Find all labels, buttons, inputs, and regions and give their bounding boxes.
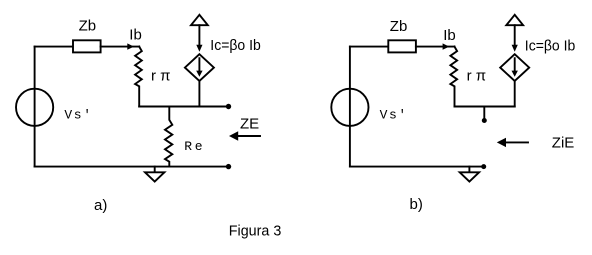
resistor r pi zigzag (circuit a) bbox=[135, 47, 142, 107]
svg-text:Re: Re bbox=[184, 139, 205, 154]
wire: current source bottom lead (circuit b) bbox=[514, 81, 516, 107]
resistor r pi zigzag (circuit b) bbox=[450, 47, 457, 107]
voltage source Vs' (circuit a) bbox=[16, 89, 53, 126]
wire: emitter stub below mid wire (circuit b) bbox=[483, 107, 485, 118]
svg-text:a): a) bbox=[94, 197, 107, 214]
Ib current arrowhead (circuit b) bbox=[443, 43, 450, 49]
wire: left vertical branch through source (circuit b) bbox=[349, 47, 351, 167]
wire: collector stem into current source (circuit b) bbox=[514, 25, 516, 45]
dependent current source Ic diamond (circuit a) bbox=[185, 54, 214, 81]
wire: bottom return wire (circuit b) bbox=[350, 166, 484, 168]
svg-text:r π: r π bbox=[151, 68, 171, 85]
dependent current source Ic diamond (circuit b) bbox=[500, 54, 529, 81]
node dot: bottom right end (circuit a) bbox=[226, 164, 231, 169]
svg-text:Figura 3: Figura 3 bbox=[229, 223, 281, 240]
wire: bottom return wire (circuit a) bbox=[35, 166, 229, 168]
svg-text:Ib: Ib bbox=[129, 27, 142, 44]
arrowhead into current source top (circuit b) bbox=[512, 45, 518, 52]
svg-text:Vs': Vs' bbox=[64, 108, 92, 123]
voltage source Vs' (circuit b) bbox=[331, 89, 368, 126]
svg-text:r π: r π bbox=[467, 68, 487, 85]
resistor Re zigzag (circuit a) bbox=[165, 107, 172, 167]
wire: mid horizontal node wire (circuit b) bbox=[455, 106, 515, 108]
ground symbol (circuit a) bbox=[154, 167, 156, 173]
wire: collector stem into current source (circuit a) bbox=[198, 25, 200, 45]
svg-text:Vs': Vs' bbox=[380, 108, 408, 123]
svg-text:ZE: ZE bbox=[240, 116, 259, 133]
node dot: emitter stub (circuit b) bbox=[482, 118, 487, 123]
svg-text:ZiE: ZiE bbox=[552, 134, 575, 151]
collector up-arrow symbol (circuit a) bbox=[191, 15, 208, 25]
svg-text:Ic=βo Ib: Ic=βo Ib bbox=[525, 38, 576, 55]
arrowhead into current source top (circuit a) bbox=[196, 45, 202, 52]
svg-text:b): b) bbox=[410, 196, 423, 213]
ground symbol (circuit b) bbox=[468, 167, 470, 173]
wire: Zb to r-pi with Ib arrow (circuit b) bbox=[416, 46, 455, 48]
current source inner arrow (circuit a) bbox=[198, 58, 200, 71]
wire: Zb to r-pi with Ib arrow (circuit a) bbox=[101, 46, 140, 48]
Ib current arrowhead (circuit a) bbox=[127, 43, 134, 49]
current source inner arrow (circuit b) bbox=[514, 58, 516, 71]
svg-text:Ic=βo Ib: Ic=βo Ib bbox=[210, 37, 260, 54]
resistor Zb (circuit a) bbox=[73, 40, 101, 52]
wire: left vertical branch through source (circuit a) bbox=[34, 47, 36, 167]
svg-text:Zb: Zb bbox=[390, 18, 408, 35]
wire: top from source to Zb (circuit b) bbox=[350, 46, 388, 48]
collector up-arrow symbol (circuit b) bbox=[506, 15, 523, 25]
wire: top from source to Zb (circuit a) bbox=[35, 46, 73, 48]
svg-text:Zb: Zb bbox=[79, 18, 97, 35]
wire: current source bottom lead (circuit a) bbox=[198, 81, 200, 107]
node dot: bottom right end (circuit b) bbox=[481, 164, 486, 169]
ZE impedance arrow (circuit a) bbox=[238, 135, 261, 137]
resistor Zb (circuit b) bbox=[388, 40, 416, 52]
node dot: emitter node right end of mid wire (circuit a) bbox=[226, 104, 231, 109]
wire: mid horizontal node wire (circuit a) bbox=[139, 106, 228, 108]
svg-text:Ib: Ib bbox=[443, 27, 456, 44]
ZiE impedance arrow (circuit b) bbox=[506, 141, 529, 143]
